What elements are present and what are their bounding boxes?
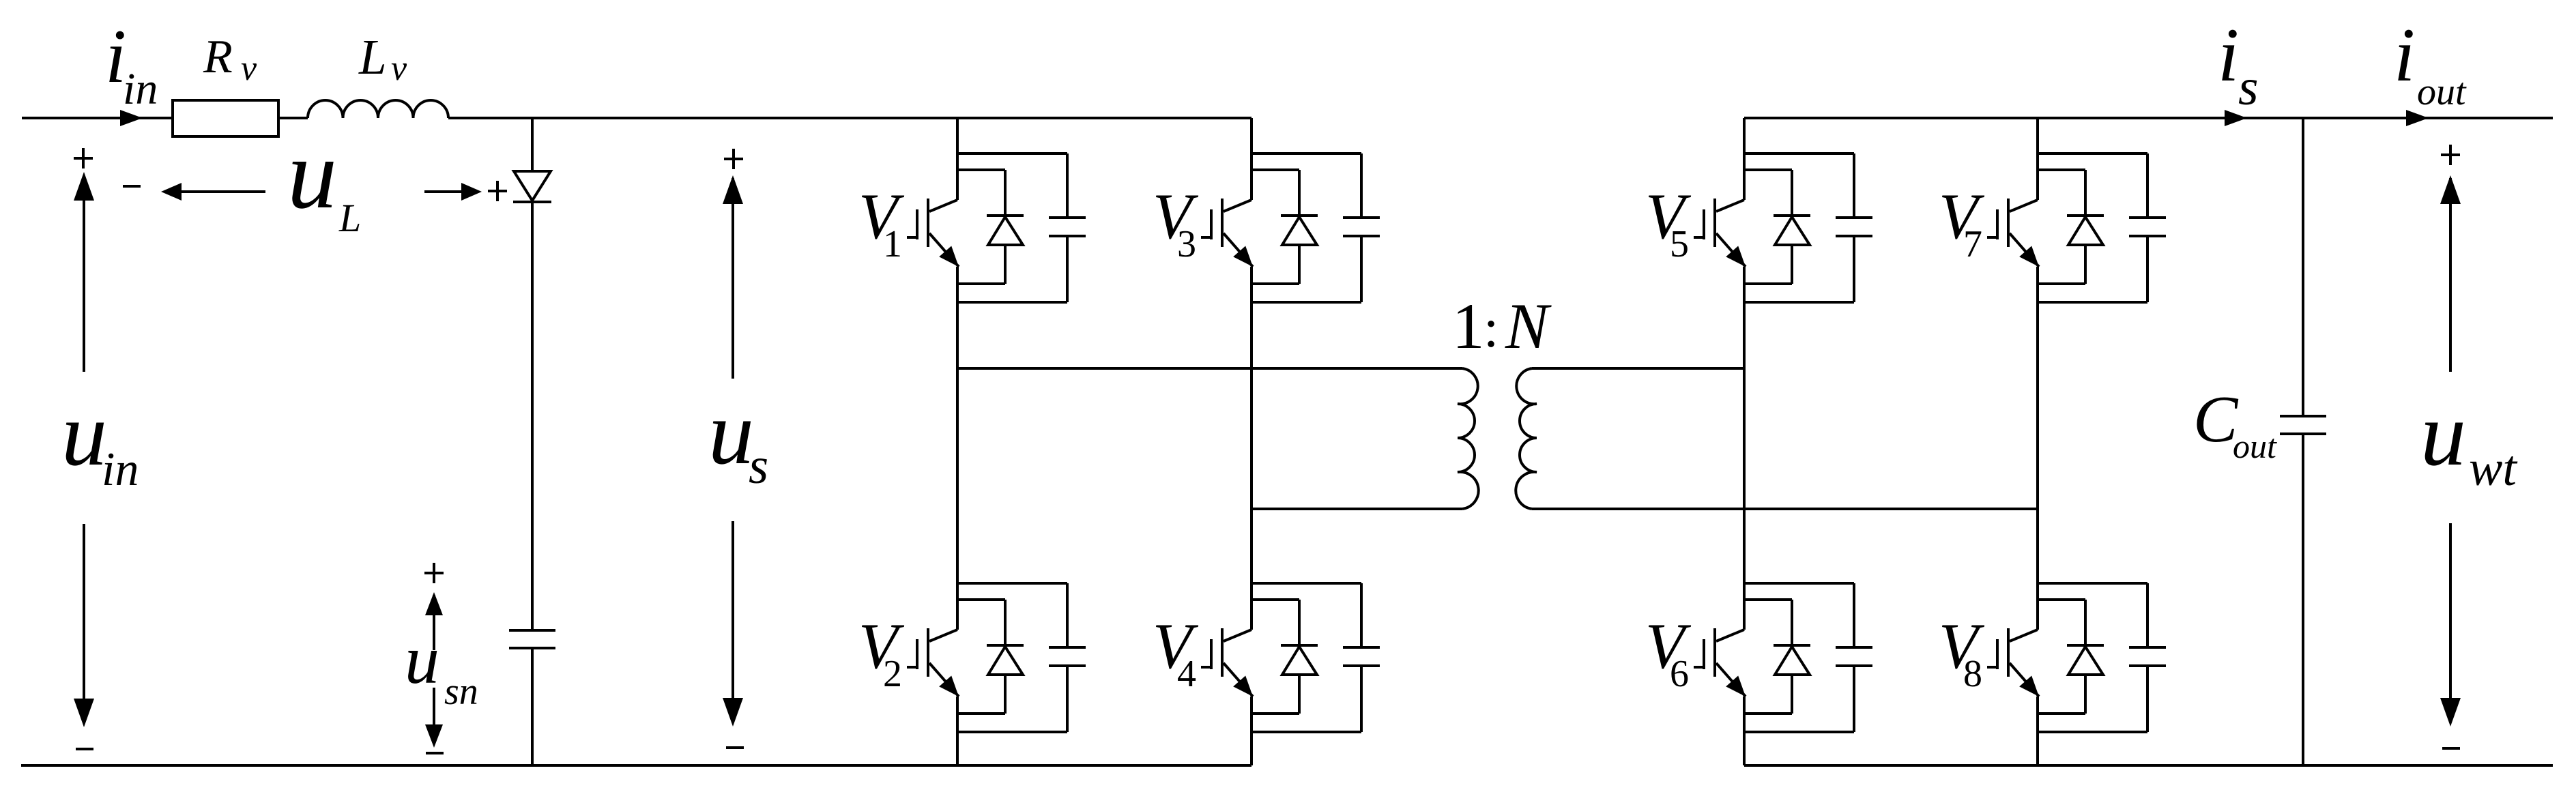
wire leg x=1403 upper segment — [956, 118, 959, 200]
diode DV5 (antiparallel with V5) — [1791, 170, 1793, 216]
wire V3 diode-branch top stub — [1251, 168, 1299, 171]
svg-text:i: i — [2218, 13, 2239, 98]
capacitor CV6 (snubber across V6) — [1853, 583, 1855, 647]
voltage arrow u_in (down head) — [83, 524, 85, 723]
diode DV8 (antiparallel with V8) — [2084, 600, 2087, 645]
transistor V6 (IGBT) — [1716, 630, 1744, 641]
wire V8 cap-branch top stub — [2038, 582, 2147, 585]
wire resistor to inductor — [278, 117, 308, 119]
wire leg x=2986 upper segment — [2036, 118, 2039, 200]
wire secondary top lead (transformer to leg V5/V6 midpoint) — [1532, 367, 1744, 370]
transistor V7 (IGBT) — [2010, 200, 2038, 211]
transformer T1 secondary winding — [1516, 368, 1537, 509]
svg-text:R: R — [203, 31, 233, 83]
voltage arrow u_sn (down head) — [433, 688, 435, 744]
svg-text:u: u — [2420, 383, 2466, 484]
capacitor CV3 (snubber across V3) — [1360, 153, 1363, 218]
minus sign of u_sn — [426, 752, 444, 754]
current arrow i_out — [2406, 110, 2429, 126]
plus sign of u_wt — [2441, 153, 2460, 156]
diode DV7 (antiparallel with V7) — [2084, 170, 2087, 216]
svg-text:4: 4 — [1177, 653, 1196, 695]
wire Cout to bottom rail — [2302, 434, 2304, 765]
svg-text:u: u — [405, 621, 439, 699]
diode DV4 (antiparallel with V4) — [1298, 600, 1301, 645]
plus sign of u_s — [724, 158, 743, 160]
capacitor CV4 (snubber across V4) — [1360, 583, 1363, 647]
svg-text:u: u — [708, 382, 754, 483]
svg-text:L: L — [358, 29, 387, 85]
diode Dv (input series diode) — [514, 171, 551, 201]
voltage arrow u_sn (up head) — [433, 595, 435, 650]
wire V2 cap-branch bottom stub — [957, 731, 1067, 733]
minus sign of u_s — [726, 746, 744, 749]
voltage arrow u_wt (down head) — [2449, 523, 2452, 722]
svg-text:3: 3 — [1177, 223, 1196, 265]
capacitor CV8 (snubber across V8) — [2146, 583, 2149, 647]
current arrow i_in — [120, 110, 143, 126]
minus sign of uL — [123, 185, 141, 188]
wire V4 cap-branch top stub — [1251, 582, 1361, 585]
transistor V1 (IGBT) — [929, 200, 957, 211]
wire primary top lead (leg V1/V2 midpoint to transformer) — [957, 367, 1462, 370]
svg-text:sn: sn — [444, 671, 478, 713]
transistor V4 (IGBT) — [1224, 630, 1251, 641]
wire top rail to Cout — [2302, 118, 2304, 416]
transistor V2 (IGBT) — [929, 630, 957, 641]
wire leg x=2986 middle segment — [2036, 267, 2039, 630]
voltage arrow uL (right head) — [424, 190, 478, 193]
wire V2 cap-branch top stub — [957, 582, 1067, 585]
wire V4 diode-branch top stub — [1251, 598, 1299, 601]
wire leg x=2986 lower segment — [2036, 696, 2039, 765]
transistor V8 (IGBT) — [2010, 630, 2038, 641]
current arrow i_s — [2225, 110, 2247, 126]
voltage arrow uL (left head) — [164, 190, 265, 193]
wire V7 diode-branch bottom stub — [2038, 282, 2085, 285]
wire leg x=2556 middle segment — [1743, 267, 1746, 630]
wire V1 diode-branch top stub — [957, 168, 1005, 171]
inductor Lv — [308, 100, 448, 118]
svg-text:s: s — [749, 438, 768, 495]
wire V7 diode-branch top stub — [2038, 168, 2085, 171]
svg-text:2: 2 — [883, 653, 902, 695]
svg-text:C: C — [2193, 383, 2239, 456]
wire V6 diode-branch bottom stub — [1744, 712, 1792, 715]
plus sign of u_in — [74, 157, 93, 160]
wire V6 diode-branch top stub — [1744, 598, 1792, 601]
wire V1 cap-branch bottom stub — [957, 301, 1067, 304]
diode DV2 (antiparallel with V2) — [1004, 600, 1007, 645]
wire leg x=1834 middle segment — [1250, 267, 1253, 630]
voltage arrow u_wt (up head) — [2449, 178, 2452, 372]
wire bottom rail right — [1744, 764, 2553, 767]
svg-text:1: 1 — [1452, 290, 1485, 362]
wire V8 cap-branch bottom stub — [2038, 731, 2147, 733]
wire V5 cap-branch bottom stub — [1744, 301, 1854, 304]
svg-text:i: i — [2394, 13, 2415, 98]
wire snubber capacitor to bottom rail — [531, 648, 534, 765]
svg-text::: : — [1484, 299, 1499, 359]
capacitor Csn (snubber) — [509, 629, 555, 632]
wire V5 cap-branch top stub — [1744, 152, 1854, 155]
wire V4 cap-branch bottom stub — [1251, 731, 1361, 733]
wire V3 diode-branch bottom stub — [1251, 282, 1299, 285]
wire V7 cap-branch top stub — [2038, 152, 2147, 155]
wire leg x=1834 lower segment — [1250, 696, 1253, 765]
svg-text:u: u — [287, 119, 337, 229]
wire bottom rail left — [21, 764, 1251, 767]
voltage arrow u_s (down head) — [732, 521, 734, 722]
svg-text:u: u — [61, 383, 107, 484]
wire leg x=2556 lower segment — [1743, 696, 1746, 765]
minus sign of u_in — [76, 748, 93, 750]
diode DV3 (antiparallel with V3) — [1298, 170, 1301, 216]
wire leg x=2556 upper segment — [1743, 118, 1746, 200]
voltage arrow u_s (up head) — [732, 178, 734, 379]
wire leg x=1403 middle segment — [956, 267, 959, 630]
wire V5 diode-branch bottom stub — [1744, 282, 1792, 285]
minus sign of u_wt — [2442, 747, 2460, 750]
svg-text:1: 1 — [883, 223, 902, 265]
wire top rail left (inductor to V3 leg) — [448, 117, 1251, 119]
wire V7 cap-branch bottom stub — [2038, 301, 2147, 304]
wire V4 diode-branch bottom stub — [1251, 712, 1299, 715]
svg-text:5: 5 — [1670, 223, 1689, 265]
wire V6 cap-branch bottom stub — [1744, 731, 1854, 733]
wire leg x=1834 upper segment — [1250, 118, 1253, 200]
svg-text:7: 7 — [1963, 223, 1982, 265]
transistor V3 (IGBT) — [1224, 200, 1251, 211]
capacitor CV2 (snubber across V2) — [1066, 583, 1069, 647]
svg-text:s: s — [2238, 59, 2259, 116]
wire V1 diode-branch bottom stub — [957, 282, 1005, 285]
wire input to resistor — [22, 117, 173, 119]
wire leg x=1403 lower segment — [956, 696, 959, 765]
wire V8 diode-branch bottom stub — [2038, 712, 2085, 715]
wire V5 diode-branch top stub — [1744, 168, 1792, 171]
svg-text:8: 8 — [1963, 653, 1982, 695]
wire secondary bottom lead (transformer to leg V7/V8 midpoint) — [1532, 508, 2038, 510]
svg-text:L: L — [338, 196, 361, 240]
svg-text:out: out — [2417, 71, 2467, 113]
voltage arrow u_in (up head) — [83, 176, 85, 372]
svg-text:in: in — [123, 64, 158, 114]
capacitor Cout — [2280, 415, 2326, 417]
transformer T1 primary winding — [1458, 368, 1479, 509]
diode DV6 (antiparallel with V6) — [1791, 600, 1793, 645]
wire top rail to diode Dv — [531, 118, 534, 171]
wire V6 cap-branch top stub — [1744, 582, 1854, 585]
wire V3 cap-branch top stub — [1251, 152, 1361, 155]
wire V2 diode-branch top stub — [957, 598, 1005, 601]
wire primary bottom lead (leg V3/V4 midpoint to transformer) — [1251, 508, 1462, 510]
wire diode to snubber capacitor — [531, 202, 534, 630]
plus sign of uL — [488, 190, 507, 192]
svg-text:N: N — [1505, 290, 1552, 362]
wire V3 cap-branch bottom stub — [1251, 301, 1361, 304]
wire V8 diode-branch top stub — [2038, 598, 2085, 601]
svg-text:6: 6 — [1670, 653, 1689, 695]
wire V2 diode-branch bottom stub — [957, 712, 1005, 715]
capacitor CV1 (snubber across V1) — [1066, 153, 1069, 218]
transistor V5 (IGBT) — [1716, 200, 1744, 211]
wire top rail right (V5 leg to output) — [1744, 117, 2553, 119]
capacitor CV5 (snubber across V5) — [1853, 153, 1855, 218]
svg-text:wt: wt — [2469, 441, 2518, 497]
plus sign of u_sn — [424, 572, 444, 574]
resistor Rv — [173, 100, 278, 136]
svg-text:v: v — [391, 49, 407, 88]
diode DV1 (antiparallel with V1) — [1004, 170, 1007, 216]
svg-text:out: out — [2233, 427, 2277, 465]
capacitor CV7 (snubber across V7) — [2146, 153, 2149, 218]
svg-text:v: v — [241, 49, 257, 88]
wire V1 cap-branch top stub — [957, 152, 1067, 155]
svg-text:in: in — [102, 443, 139, 496]
